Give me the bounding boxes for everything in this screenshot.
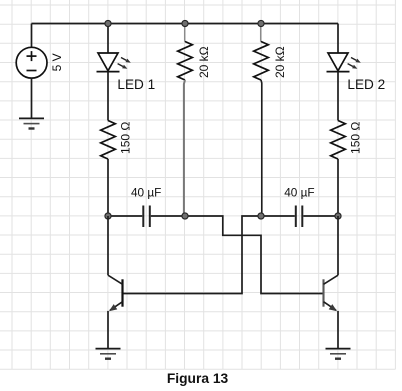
wire R2 to node M2 (260, 80, 263, 216)
svg-text:150 Ω: 150 Ω (119, 122, 133, 154)
label LED 1 (117, 77, 155, 92)
ground (Q1) (96, 349, 121, 359)
label 40 uF (right) (284, 186, 314, 200)
wire node R to Q2 collector (337, 216, 339, 275)
svg-text:150 Ω: 150 Ω (349, 122, 363, 154)
resistor R1 20 kohm (178, 42, 193, 81)
wire node M2 to C2 (261, 215, 295, 217)
svg-text:20 kΩ: 20 kΩ (197, 46, 211, 78)
wire LED1 cathode to R-150 left (107, 72, 109, 121)
wire R-150 right to node R (337, 159, 339, 216)
wire C2 to node R (303, 215, 338, 217)
label 150 ohm (right) (349, 122, 363, 154)
label 20 kohm (right) (273, 46, 287, 78)
svg-text:20 kΩ: 20 kΩ (273, 46, 287, 78)
wire Q1 emitter to ground (107, 311, 109, 349)
transistor Q2 (324, 275, 339, 311)
LED D2 (327, 53, 361, 72)
junction rail-R1 (182, 20, 188, 26)
wire node L to Q1 collector (107, 216, 109, 275)
resistor 150 ohm (left) (101, 121, 116, 160)
wire LED2 cathode to R-150 right (337, 72, 339, 121)
voltage source V1 (16, 47, 47, 78)
caption Figura 13 (167, 371, 229, 386)
junction rail-LED1 (105, 20, 111, 26)
ground (source) (19, 118, 44, 128)
wire rail to R1 (184, 24, 186, 42)
capacitor C2 40 uF (296, 206, 303, 228)
wire top rail (32, 23, 339, 25)
junction rail-R2 (258, 20, 264, 26)
svg-text:40 µF: 40 µF (284, 186, 314, 200)
resistor 150 ohm (right) (331, 121, 346, 160)
wire Q2 emitter to ground (337, 311, 339, 349)
junction node M2 (258, 213, 264, 219)
wire rail to R2 (260, 24, 262, 42)
svg-text:40 µF: 40 µF (131, 186, 161, 200)
svg-text:LED 1: LED 1 (117, 77, 155, 92)
svg-text:Figura 13: Figura 13 (167, 371, 229, 386)
wire C1 to node M1 (151, 215, 185, 217)
svg-text:5 V: 5 V (50, 53, 64, 71)
label 40 uF (left) (131, 186, 161, 200)
wire node M2 to Q1 base (cross coupling B) (123, 216, 262, 294)
wire node M1 to Q2 base (cross coupling A) (185, 216, 324, 294)
wire node L to C1 (108, 215, 142, 217)
junction node L (105, 213, 111, 219)
svg-text:LED 2: LED 2 (347, 77, 385, 92)
wire rail to LED1 anode (107, 24, 109, 54)
LED D1 (97, 53, 131, 72)
resistor R2 20 kohm (254, 42, 269, 81)
wire R1 to node M1 (184, 80, 185, 216)
label 5 V (50, 53, 64, 71)
wire rail to LED2 anode (337, 24, 339, 54)
label LED 2 (347, 77, 385, 92)
wire source to ground (31, 78, 33, 118)
junction node R (335, 213, 341, 219)
wire R-150 left to node L (107, 159, 109, 216)
label 150 ohm (left) (119, 122, 133, 154)
transistor Q1 (108, 275, 123, 311)
ground (Q2) (326, 349, 351, 359)
capacitor C1 40 uF (143, 206, 150, 228)
junction node M1 (182, 213, 188, 219)
label 20 kohm (left) (197, 46, 211, 78)
wire source to top rail (31, 24, 33, 48)
